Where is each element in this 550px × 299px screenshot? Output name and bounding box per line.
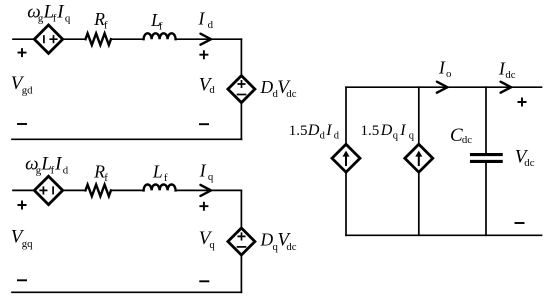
wire inductor to right corner	[176, 189, 242, 191]
svg-text:f: f	[51, 165, 55, 177]
minus right (top circuit)	[199, 123, 209, 125]
svg-text:dc: dc	[462, 134, 472, 146]
resistor Rf (bottom)	[86, 185, 111, 197]
svg-text:gd: gd	[22, 84, 33, 96]
svg-text:q: q	[409, 131, 415, 142]
wire source to resistor	[62, 189, 85, 191]
svg-text:gq: gq	[22, 238, 33, 250]
capacitor Cdc	[472, 153, 502, 156]
svg-text:I: I	[325, 122, 332, 139]
svg-text:q: q	[393, 131, 399, 142]
wire source to resistor	[62, 38, 85, 40]
svg-text:d: d	[334, 130, 340, 141]
arrow Idc	[501, 82, 512, 93]
svg-text:I: I	[199, 161, 207, 181]
wire bottom rail	[346, 234, 542, 236]
dependent voltage source wgLfIq	[34, 25, 62, 53]
wire resistor to inductor	[111, 38, 144, 40]
plus left (bottom circuit)	[18, 201, 27, 210]
svg-text:f: f	[164, 172, 168, 184]
svg-text:D: D	[260, 230, 274, 250]
plus right (top circuit)	[199, 50, 208, 59]
svg-text:L: L	[152, 161, 163, 181]
svg-text:q: q	[209, 239, 215, 251]
minus left (bottom circuit)	[17, 279, 27, 281]
wire right branch lower	[240, 103, 242, 140]
svg-text:o: o	[446, 68, 451, 80]
wire resistor to inductor	[111, 189, 144, 191]
svg-text:f: f	[159, 21, 163, 33]
wire middle branch upper	[418, 87, 420, 145]
wire left branch upper	[345, 87, 347, 145]
wire bottom (bottom circuit)	[12, 291, 241, 293]
wire capacitor branch upper	[485, 87, 487, 153]
svg-text:dc: dc	[286, 241, 296, 253]
dependent voltage source DdVdc	[228, 76, 255, 103]
inductor Lf (top)	[144, 33, 176, 39]
dependent voltage source wgLfId	[34, 176, 62, 204]
svg-text:I: I	[198, 9, 206, 29]
minus left (top circuit)	[17, 123, 27, 125]
minus right rail	[515, 222, 525, 224]
minus right (bottom circuit)	[199, 280, 209, 282]
wire middle branch lower	[418, 172, 420, 236]
svg-text:d: d	[208, 19, 214, 31]
svg-text:f: f	[104, 172, 108, 184]
svg-text:f: f	[104, 19, 108, 31]
wire top left stub	[13, 38, 35, 40]
svg-text:D: D	[307, 122, 320, 139]
svg-text:1.5: 1.5	[289, 123, 308, 139]
inductor Lf (bottom)	[144, 185, 176, 191]
plus right rail	[518, 98, 527, 107]
label wg Lf Id (bottom circuit)	[25, 154, 69, 177]
wire left branch lower	[345, 172, 347, 236]
wire capacitor branch lower	[485, 163, 487, 235]
wire right branch lower	[240, 255, 242, 292]
svg-text:dc: dc	[286, 88, 296, 100]
svg-text:1.5: 1.5	[361, 123, 380, 139]
wire inductor to right corner	[176, 38, 242, 40]
current source 1.5DqIq	[405, 144, 433, 172]
resistor Rf (top)	[86, 33, 111, 45]
wire right branch upper	[240, 190, 242, 228]
arrow Io	[437, 82, 448, 93]
arrow Iq	[201, 185, 212, 196]
svg-text:D: D	[260, 77, 274, 97]
svg-text:q: q	[65, 13, 71, 25]
svg-text:q: q	[208, 171, 214, 183]
svg-text:f: f	[53, 13, 57, 25]
arrow Id	[201, 34, 212, 45]
svg-text:d: d	[63, 165, 69, 177]
svg-text:d: d	[320, 130, 326, 141]
wire bottom (top circuit)	[12, 138, 241, 140]
dependent voltage source DqVdc	[228, 228, 255, 255]
wire top rail	[346, 86, 542, 88]
svg-text:D: D	[380, 122, 393, 139]
svg-text:d: d	[209, 84, 215, 96]
wire top left stub	[13, 189, 35, 191]
plus right (bottom circuit)	[199, 202, 208, 211]
svg-text:I: I	[399, 122, 406, 139]
svg-text:I: I	[438, 58, 446, 78]
label wg Lf Iq	[27, 1, 71, 24]
svg-text:dc: dc	[524, 157, 534, 169]
svg-text:dc: dc	[505, 69, 515, 81]
wire right branch upper	[240, 39, 242, 75]
plus left (top circuit)	[18, 48, 27, 57]
current source 1.5DdId	[332, 144, 360, 172]
